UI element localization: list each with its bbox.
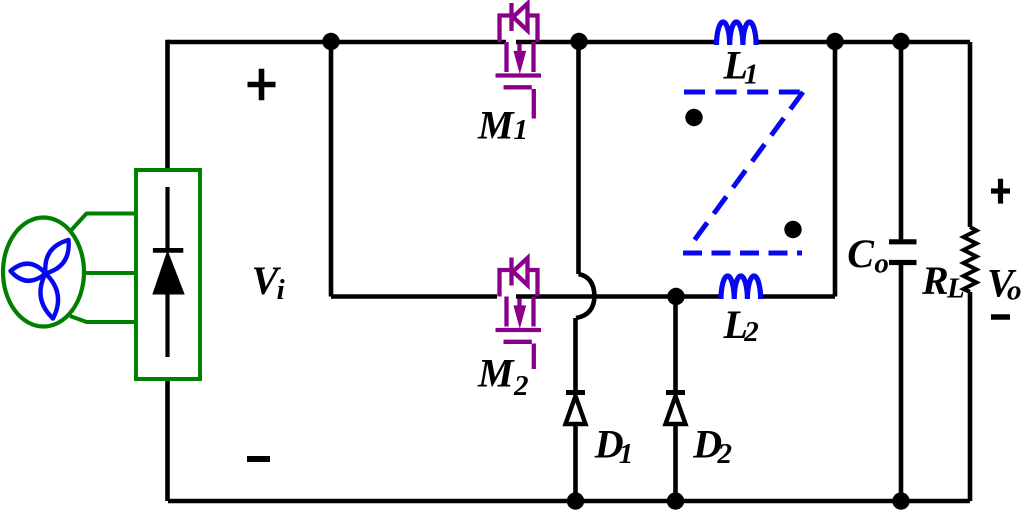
inductor L2 [721,276,761,299]
svg-text:R: R [921,258,949,303]
coupled winding Z diagonal dashed line [695,92,804,240]
wire left edge top (Vi+ to rectifier) [165,40,170,172]
coupled winding Z bottom dashed line [683,251,802,256]
node dot top rail x=331 [322,33,339,50]
minus sign input [247,456,270,462]
svg-text:o: o [1007,275,1022,307]
svg-text:M: M [477,102,515,147]
turbine blade upper-right [45,240,68,274]
node dot top rail x=579 [570,33,587,50]
diode D1 [566,393,586,425]
diode D2 [666,393,686,425]
wire top rail to capacitor Co [899,42,904,240]
node dot bottom rail x=576 [567,492,584,509]
svg-text:M: M [477,351,515,396]
wire right edge (top corner to RL, RL to bottom corner) [968,42,973,501]
polarity dot lower [784,221,801,238]
node dot top rail x=901 [892,33,909,50]
svg-text:i: i [277,274,285,306]
wire branch from top rail to hop [576,42,581,274]
mosfet M2 [496,258,542,370]
minus sign output [991,314,1010,320]
wire middle junction to D2 [673,297,678,393]
wire top rail [168,40,970,45]
plus sign input [248,69,276,100]
green lead top [70,214,136,232]
mosfet M1 [496,3,542,119]
wire capacitor Co to bottom rail [899,265,904,501]
polarity dot upper [685,109,702,126]
svg-text:1: 1 [744,59,759,91]
wire bottom rail [168,499,970,504]
resistor RL [964,227,977,292]
turbine blade left [11,264,46,281]
svg-text:C: C [847,231,875,276]
svg-text:2: 2 [513,370,529,402]
wire hop over middle rail [576,274,595,318]
svg-text:2: 2 [717,438,733,470]
svg-text:1: 1 [514,114,529,146]
capacitor Co plates [889,242,917,263]
wire hop to D1 [573,318,578,392]
wire D1 to bottom rail [573,424,578,501]
node dot bottom rail x=901 [892,492,909,509]
wind turbine housing (green ellipse) [3,218,84,327]
wire inner branch from top rail down to middle rail [329,42,334,297]
inductor L1 [717,22,757,45]
svg-text:2: 2 [743,316,759,348]
wire left edge bottom (rectifier to bottom rail) [165,377,170,501]
node dot top rail x=835 [826,33,843,50]
svg-text:L: L [946,273,965,305]
rectifier diode [153,187,184,357]
wire D2 to bottom rail [673,424,678,501]
green lead middle [83,271,136,275]
green lead bottom [70,316,136,322]
node dot middle rail x=676 [667,288,684,305]
wire Z-cell right side vertical [833,42,838,297]
plus sign output [991,179,1010,204]
svg-text:o: o [874,248,889,280]
svg-text:1: 1 [619,438,634,470]
turbine blade lower [40,274,58,319]
node dot bottom rail x=676 [667,492,684,509]
coupled winding Z top dashed line [684,90,803,95]
wire middle rail [331,294,835,299]
rectifier box [136,170,200,379]
